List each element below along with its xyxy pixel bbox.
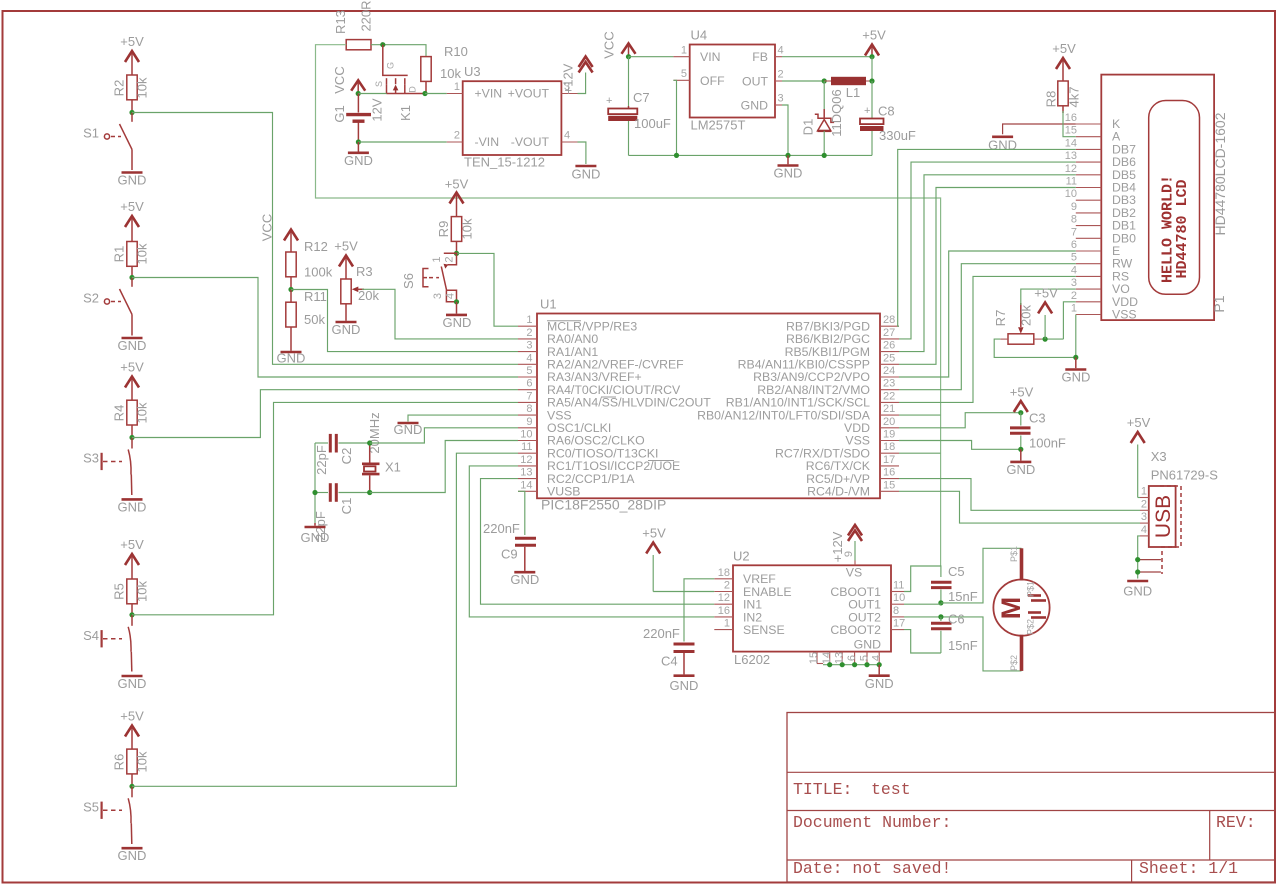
X3 pin stubs and numbers <box>1140 486 1149 536</box>
svg-text:GND: GND <box>332 322 361 337</box>
svg-text:16: 16 <box>1065 112 1077 124</box>
node OUT/D1/L1 junction <box>822 78 827 83</box>
svg-text:D1: D1 <box>801 119 816 136</box>
svg-text:GND: GND <box>988 137 1017 152</box>
svg-text:GND: GND <box>1123 584 1152 599</box>
U2 VS pin and +12V <box>843 541 855 565</box>
svg-text:U4: U4 <box>691 28 708 43</box>
svg-text:2: 2 <box>1071 290 1077 302</box>
pin 2 U4 <box>775 80 782 82</box>
capacitor C3 <box>1010 411 1066 451</box>
ground (S1) <box>118 173 147 188</box>
svg-text:Date: not saved!: Date: not saved! <box>793 859 951 878</box>
resistor R13 <box>333 0 374 49</box>
svg-text:S6: S6 <box>401 273 416 289</box>
svg-text:test: test <box>871 780 911 799</box>
svg-text:GND: GND <box>301 530 330 545</box>
ground (S5) <box>118 848 147 863</box>
resistor R6 <box>112 749 150 786</box>
svg-text:11: 11 <box>1066 176 1077 188</box>
ground (R11) <box>277 351 306 366</box>
svg-text:Document Number:: Document Number: <box>793 813 951 832</box>
svg-text:GND: GND <box>277 351 306 366</box>
svg-text:16: 16 <box>718 605 730 617</box>
node R5/S4 junction <box>129 612 134 617</box>
wire U1 pin12 to U2 IN2 <box>469 466 714 617</box>
svg-text:GND: GND <box>394 422 423 437</box>
node D1/gnd rail junction <box>822 153 827 158</box>
svg-text:X3: X3 <box>1151 449 1167 464</box>
U1 right pin stubs and numbers <box>880 314 899 491</box>
node R2/S1 junction <box>129 110 134 115</box>
wire U1 pin8 VSS to GND <box>408 415 518 421</box>
svg-text:-VIN: -VIN <box>475 135 500 149</box>
capacitor C7 (polarized) <box>606 90 671 131</box>
svg-text:13: 13 <box>520 467 532 479</box>
svg-text:14: 14 <box>1065 137 1077 149</box>
svg-text:3: 3 <box>1141 511 1147 523</box>
pin 3 U4 <box>775 104 782 106</box>
wire G1 to U3 pin2 <box>358 141 446 143</box>
svg-text:+5V: +5V <box>120 199 144 214</box>
svg-text:100k: 100k <box>304 265 333 280</box>
IC U1 PIC18F2550_28DIP <box>537 297 880 513</box>
power +5V symbol (R4) <box>120 360 144 401</box>
svg-text:GND: GND <box>1062 370 1091 385</box>
ground (S3) <box>118 499 147 514</box>
svg-text:1: 1 <box>681 44 687 56</box>
wire OUT2 to motor PS2 <box>904 617 1022 671</box>
wire +5V to X3 pin1 <box>1138 497 1140 499</box>
svg-text:C7: C7 <box>633 90 650 105</box>
svg-text:LM2575T: LM2575T <box>691 118 746 133</box>
svg-text:REV:: REV: <box>1216 813 1256 832</box>
svg-text:26: 26 <box>883 340 895 352</box>
svg-text:R8: R8 <box>1044 91 1059 108</box>
node VSS/R7/GND junction <box>1073 355 1078 360</box>
svg-text:D: D <box>408 86 418 93</box>
wire U1 pin14 VUSB to C9 <box>518 491 525 535</box>
X3 shield pins <box>1138 560 1161 572</box>
svg-text:21: 21 <box>883 403 895 415</box>
U1 left pin stubs and numbers <box>518 314 537 491</box>
svg-text:18: 18 <box>883 441 895 453</box>
wire E <box>899 251 1076 377</box>
wire drain to U3 pin1 <box>425 93 447 95</box>
svg-text:G1: G1 <box>332 105 347 122</box>
svg-text:12: 12 <box>718 592 730 604</box>
wire LCD VO to R7 wiper <box>1021 289 1076 305</box>
svg-text:1: 1 <box>1071 303 1077 315</box>
svg-text:+5V: +5V <box>1052 41 1076 56</box>
switch S5 <box>83 786 132 844</box>
resistor R10 <box>421 44 468 94</box>
svg-text:C2: C2 <box>339 448 354 465</box>
node R9/S6 junction <box>454 251 459 256</box>
svg-text:GND: GND <box>118 173 147 188</box>
svg-text:7: 7 <box>1071 226 1077 238</box>
svg-text:17: 17 <box>883 454 895 466</box>
wire U1 pin19 VSS to C3 <box>899 441 1021 450</box>
svg-text:U3: U3 <box>464 64 481 79</box>
node C6/OUT2 junction <box>938 614 943 619</box>
pin 4 U4 <box>775 56 782 58</box>
node U4 gnd junction <box>785 153 790 158</box>
wire U4 pin3 GND to rail <box>782 105 788 155</box>
svg-text:+5V: +5V <box>120 34 144 49</box>
capacitor C9 <box>483 521 536 571</box>
svg-text:C8: C8 <box>878 104 895 119</box>
svg-text:15: 15 <box>883 479 895 491</box>
node C5/OUT1 junction <box>938 600 943 605</box>
svg-text:3: 3 <box>778 93 784 105</box>
svg-text:15nF: 15nF <box>948 638 978 653</box>
svg-text:U2: U2 <box>733 548 750 563</box>
LCD pin names <box>1112 117 1138 322</box>
svg-text:14: 14 <box>520 479 532 491</box>
svg-text:+5V: +5V <box>445 177 469 192</box>
wire +5V node down to L1 right <box>871 57 873 81</box>
connector P1 HD44780LCD-1602 <box>1101 75 1228 321</box>
power VCC symbol (C7) <box>602 31 636 58</box>
svg-text:GND: GND <box>118 338 147 353</box>
resistor R9 <box>436 217 475 254</box>
svg-text:1: 1 <box>724 618 730 630</box>
wire U1 pin20 VDD to C3 <box>899 413 1021 428</box>
svg-text:P$1: P$1 <box>1026 581 1036 597</box>
switch S6 <box>401 253 457 302</box>
battery G1 <box>332 94 385 143</box>
svg-text:+5V: +5V <box>120 709 144 724</box>
node C3 top junction <box>1018 410 1023 415</box>
capacitor C6 <box>931 612 978 654</box>
capacitor C2 <box>314 434 370 475</box>
svg-text:3: 3 <box>1071 277 1077 289</box>
svg-text:R1: R1 <box>112 246 127 263</box>
svg-text:GND: GND <box>118 848 147 863</box>
svg-text:USB: USB <box>1152 495 1175 538</box>
svg-text:+5V: +5V <box>120 537 144 552</box>
ground (LCD K) <box>988 137 1017 153</box>
U1 left pin names <box>547 319 711 498</box>
node K1 drain / R10 junction <box>422 91 427 96</box>
node R13/gate junction <box>380 42 385 47</box>
wire +5V to U2 ENABLE <box>653 591 714 593</box>
svg-text:R12: R12 <box>304 239 328 254</box>
svg-text:2: 2 <box>444 256 456 262</box>
svg-text:-VOUT: -VOUT <box>511 135 550 149</box>
switch S4 <box>83 615 132 672</box>
svg-text:R9: R9 <box>436 221 451 238</box>
capacitor C4 <box>643 626 695 674</box>
wire X1 top to U1 pin9 <box>370 428 518 443</box>
svg-text:330uF: 330uF <box>879 128 916 143</box>
node R1/S2 junction <box>129 275 134 280</box>
svg-text:9: 9 <box>526 416 532 428</box>
wire CBOOT2 bracket to C6 <box>904 630 941 653</box>
ground (C1/C2) <box>301 523 330 545</box>
U2 right pin stubs and numbers <box>891 580 905 630</box>
svg-text:4: 4 <box>871 655 883 661</box>
U2 bottom gnd pins <box>808 652 883 665</box>
pin 1 U3 <box>447 93 463 95</box>
IC U2 L6202 <box>733 548 891 667</box>
svg-text:1: 1 <box>431 256 443 262</box>
svg-text:U1: U1 <box>540 297 557 312</box>
svg-text:+5V: +5V <box>1127 415 1151 430</box>
power +5V symbol (U2 ENABLE) <box>642 526 666 592</box>
svg-text:GND: GND <box>510 572 539 587</box>
diode D1 11DQ06 <box>801 81 845 155</box>
svg-text:100uF: 100uF <box>634 116 671 131</box>
node L1/C8 junction <box>869 78 874 83</box>
svg-text:220nF: 220nF <box>643 626 680 641</box>
node VCC/G1 junction <box>356 91 361 96</box>
svg-text:4k7: 4k7 <box>1067 87 1082 108</box>
svg-text:X1: X1 <box>385 460 401 475</box>
svg-text:PN61729-S: PN61729-S <box>1151 467 1219 482</box>
wire R9 junction to U1 pin1 <box>457 253 519 326</box>
svg-text:VUSB: VUSB <box>547 485 581 499</box>
svg-text:6: 6 <box>1071 239 1077 251</box>
wire LCD VSS down <box>1075 315 1077 358</box>
power +5V symbol (R9) <box>445 177 469 217</box>
svg-text:2: 2 <box>1141 498 1147 510</box>
ground (S6) <box>442 302 471 330</box>
power +5V symbol (R5) <box>120 537 144 579</box>
node C1 left junction <box>312 490 317 495</box>
svg-text:GND: GND <box>774 166 803 181</box>
svg-text:+5V: +5V <box>1034 286 1058 301</box>
svg-text:16: 16 <box>883 467 895 479</box>
svg-text:10k: 10k <box>135 581 150 602</box>
svg-text:GND: GND <box>344 153 373 168</box>
wire U1 pin18 to rail <box>899 452 941 454</box>
svg-text:VSS: VSS <box>1112 308 1137 322</box>
wire DB6 <box>899 162 1076 339</box>
svg-text:10k: 10k <box>135 751 150 772</box>
wire RS <box>899 276 1076 402</box>
svg-text:10: 10 <box>1065 188 1077 200</box>
svg-text:22: 22 <box>883 390 895 402</box>
power VCC symbol (G1) <box>332 66 365 93</box>
switch S3 <box>83 438 132 496</box>
wire C2/C1 left rail to GND <box>314 443 316 523</box>
svg-text:6: 6 <box>526 378 532 390</box>
ground (R3) <box>332 322 361 337</box>
power +5V symbol (R8) <box>1052 41 1076 81</box>
svg-text:10k: 10k <box>460 218 475 239</box>
svg-text:C6: C6 <box>948 612 965 627</box>
svg-text:2: 2 <box>778 69 784 81</box>
svg-text:25: 25 <box>883 352 895 364</box>
power +5V symbol (U4 FB) <box>862 28 886 57</box>
wire gnd rail <box>629 154 873 156</box>
svg-text:9: 9 <box>1071 201 1077 213</box>
svg-text:P1: P1 <box>1211 295 1227 312</box>
svg-text:20k: 20k <box>358 288 379 303</box>
svg-text:5: 5 <box>1071 252 1077 264</box>
ground (U3) <box>571 166 600 182</box>
svg-text:+12V: +12V <box>561 63 576 94</box>
svg-text:8: 8 <box>1071 214 1077 226</box>
ground (G1) <box>344 142 373 168</box>
power +5V symbol (C3) <box>1010 385 1034 413</box>
svg-text:3: 3 <box>526 340 532 352</box>
svg-text:6: 6 <box>846 655 858 661</box>
svg-text:+5V: +5V <box>1010 385 1034 400</box>
node R7/+5V junction <box>1043 337 1048 342</box>
svg-text:S1: S1 <box>83 126 99 141</box>
node shield junctions <box>1135 557 1140 562</box>
ground (U1 VSS) <box>394 422 423 437</box>
svg-text:S: S <box>374 81 384 87</box>
svg-text:R13: R13 <box>333 10 348 34</box>
svg-text:P$2: P$2 <box>1026 619 1036 635</box>
svg-text:4: 4 <box>1141 524 1147 536</box>
svg-text:13: 13 <box>1065 150 1077 162</box>
svg-text:GND: GND <box>118 500 147 515</box>
svg-text:10k: 10k <box>135 243 150 264</box>
svg-text:10k: 10k <box>440 66 461 81</box>
svg-text:GND: GND <box>865 676 894 691</box>
resistor R4 <box>112 400 150 437</box>
wire R13 left / long rail to C5 column <box>316 45 941 566</box>
resistor R11 <box>286 289 327 351</box>
svg-text:R3: R3 <box>356 264 373 279</box>
resistor R2 <box>112 75 150 113</box>
svg-text:VCC: VCC <box>260 214 275 241</box>
resistor R12 <box>286 239 333 290</box>
ground (S4) <box>118 676 147 691</box>
svg-text:4: 4 <box>445 293 457 299</box>
svg-text:+5V: +5V <box>334 239 358 254</box>
wire CBOOT1 bracket to C5 <box>904 566 941 592</box>
node X1 bottom junction <box>367 490 372 495</box>
svg-text:GND: GND <box>571 167 600 182</box>
svg-text:VCC: VCC <box>332 66 347 93</box>
power +5V symbol (R6) <box>120 709 144 750</box>
wire R13 right to R10 top <box>371 45 426 57</box>
svg-text:8: 8 <box>526 403 532 415</box>
wire LCD K pin16 to GND (red) <box>1003 124 1076 134</box>
wire R8 to LCD A pin15 <box>1063 111 1076 137</box>
svg-text:RA5/AN4/SS/HLVDIN/C2OUT: RA5/AN4/SS/HLVDIN/C2OUT <box>547 396 711 410</box>
resistor R5 <box>112 579 150 615</box>
svg-text:15: 15 <box>808 652 820 664</box>
svg-text:13: 13 <box>834 652 846 664</box>
wire R2 junction to U1 pin4 (net VCC) <box>132 113 518 365</box>
node R4/S3 junction <box>129 435 134 440</box>
wire U1 pin21 to rail <box>899 414 941 416</box>
svg-text:27: 27 <box>883 327 895 339</box>
svg-text:5: 5 <box>681 68 687 80</box>
node X1 top junction <box>367 440 372 445</box>
svg-text:12V: 12V <box>370 98 385 121</box>
svg-text:PIC18F2550_28DIP: PIC18F2550_28DIP <box>541 497 666 513</box>
ground (U2) <box>865 665 894 692</box>
svg-text:VS: VS <box>846 566 862 580</box>
potentiometer R7 <box>993 303 1042 344</box>
node gnd rail junctions <box>827 662 832 667</box>
svg-text:100nF: 100nF <box>1029 436 1066 451</box>
svg-text:10: 10 <box>520 429 532 441</box>
U2 left pin stubs and numbers <box>714 567 733 630</box>
svg-text:M: M <box>996 597 1026 620</box>
wire U1 pin15 to X3 pin3 <box>899 491 1140 523</box>
svg-text:3: 3 <box>432 293 444 299</box>
node C3 bottom junction <box>1018 447 1023 452</box>
svg-text:1: 1 <box>526 314 532 326</box>
svg-text:220R: 220R <box>359 0 374 31</box>
svg-text:P$2: P$2 <box>1009 655 1019 671</box>
svg-text:20: 20 <box>883 416 895 428</box>
svg-text:GND: GND <box>1006 462 1035 477</box>
pin 2 U3 <box>447 141 463 143</box>
svg-text:+5V: +5V <box>120 360 144 375</box>
svg-text:TITLE:: TITLE: <box>793 780 852 799</box>
svg-text:220nF: 220nF <box>483 521 520 536</box>
svg-text:22pF: 22pF <box>314 445 329 475</box>
ground (U4 / rail) <box>774 155 803 180</box>
svg-text:R6: R6 <box>112 754 127 771</box>
capacitor C1 <box>313 483 370 541</box>
svg-text:+: + <box>606 95 612 107</box>
svg-text:TEN_15-1212: TEN_15-1212 <box>464 155 545 170</box>
wire U4 OFF pin5 to gnd rail <box>673 80 676 155</box>
svg-text:5: 5 <box>526 365 532 377</box>
wire R12/R11 junction to U1 pin3 <box>291 290 518 352</box>
svg-text:R7: R7 <box>993 310 1008 327</box>
power VCC symbol (R12) <box>284 230 298 253</box>
svg-text:GND: GND <box>741 99 768 113</box>
wire R1 junction to U1 pin5 <box>132 278 518 378</box>
svg-text:20MHz: 20MHz <box>367 412 382 453</box>
wire X1 bottom to U1 pin10 <box>370 441 518 493</box>
svg-text:11: 11 <box>893 580 904 592</box>
svg-text:HD44780 LCD: HD44780 LCD <box>1174 179 1191 278</box>
pin 3 U3 <box>561 93 577 95</box>
wire U4 FB pin4 to +5V node <box>782 56 872 58</box>
node G1 bottom junction <box>356 139 361 144</box>
svg-text:10k: 10k <box>135 402 150 423</box>
node R6/S5 junction <box>129 784 134 789</box>
pin 5 U4 <box>673 79 689 81</box>
resistor R1 <box>112 242 150 278</box>
wire RW <box>899 264 1076 390</box>
wire DB4 <box>899 188 1076 365</box>
ground (LCD VSS) <box>1062 357 1091 384</box>
svg-text:K1: K1 <box>398 105 413 121</box>
svg-text:15nF: 15nF <box>948 589 978 604</box>
svg-text:GND: GND <box>442 315 471 330</box>
svg-text:CBOOT2: CBOOT2 <box>830 623 881 637</box>
svg-text:4: 4 <box>564 130 570 142</box>
svg-text:SENSE: SENSE <box>743 623 785 637</box>
svg-text:GND: GND <box>854 638 881 652</box>
power +5V symbol (R2) <box>120 34 144 75</box>
svg-text:18: 18 <box>718 567 730 579</box>
svg-text:+VOUT: +VOUT <box>508 87 550 101</box>
svg-text:11: 11 <box>521 441 532 453</box>
svg-text:R5: R5 <box>112 583 127 600</box>
node VCC/C7 junction <box>626 54 631 59</box>
power +5V symbol (R7) <box>1034 286 1058 340</box>
svg-text:VIN: VIN <box>700 50 721 64</box>
wire U2 VREF to C4 <box>684 579 714 642</box>
svg-text:23: 23 <box>883 378 895 390</box>
node R12/R11 junction <box>288 287 293 292</box>
